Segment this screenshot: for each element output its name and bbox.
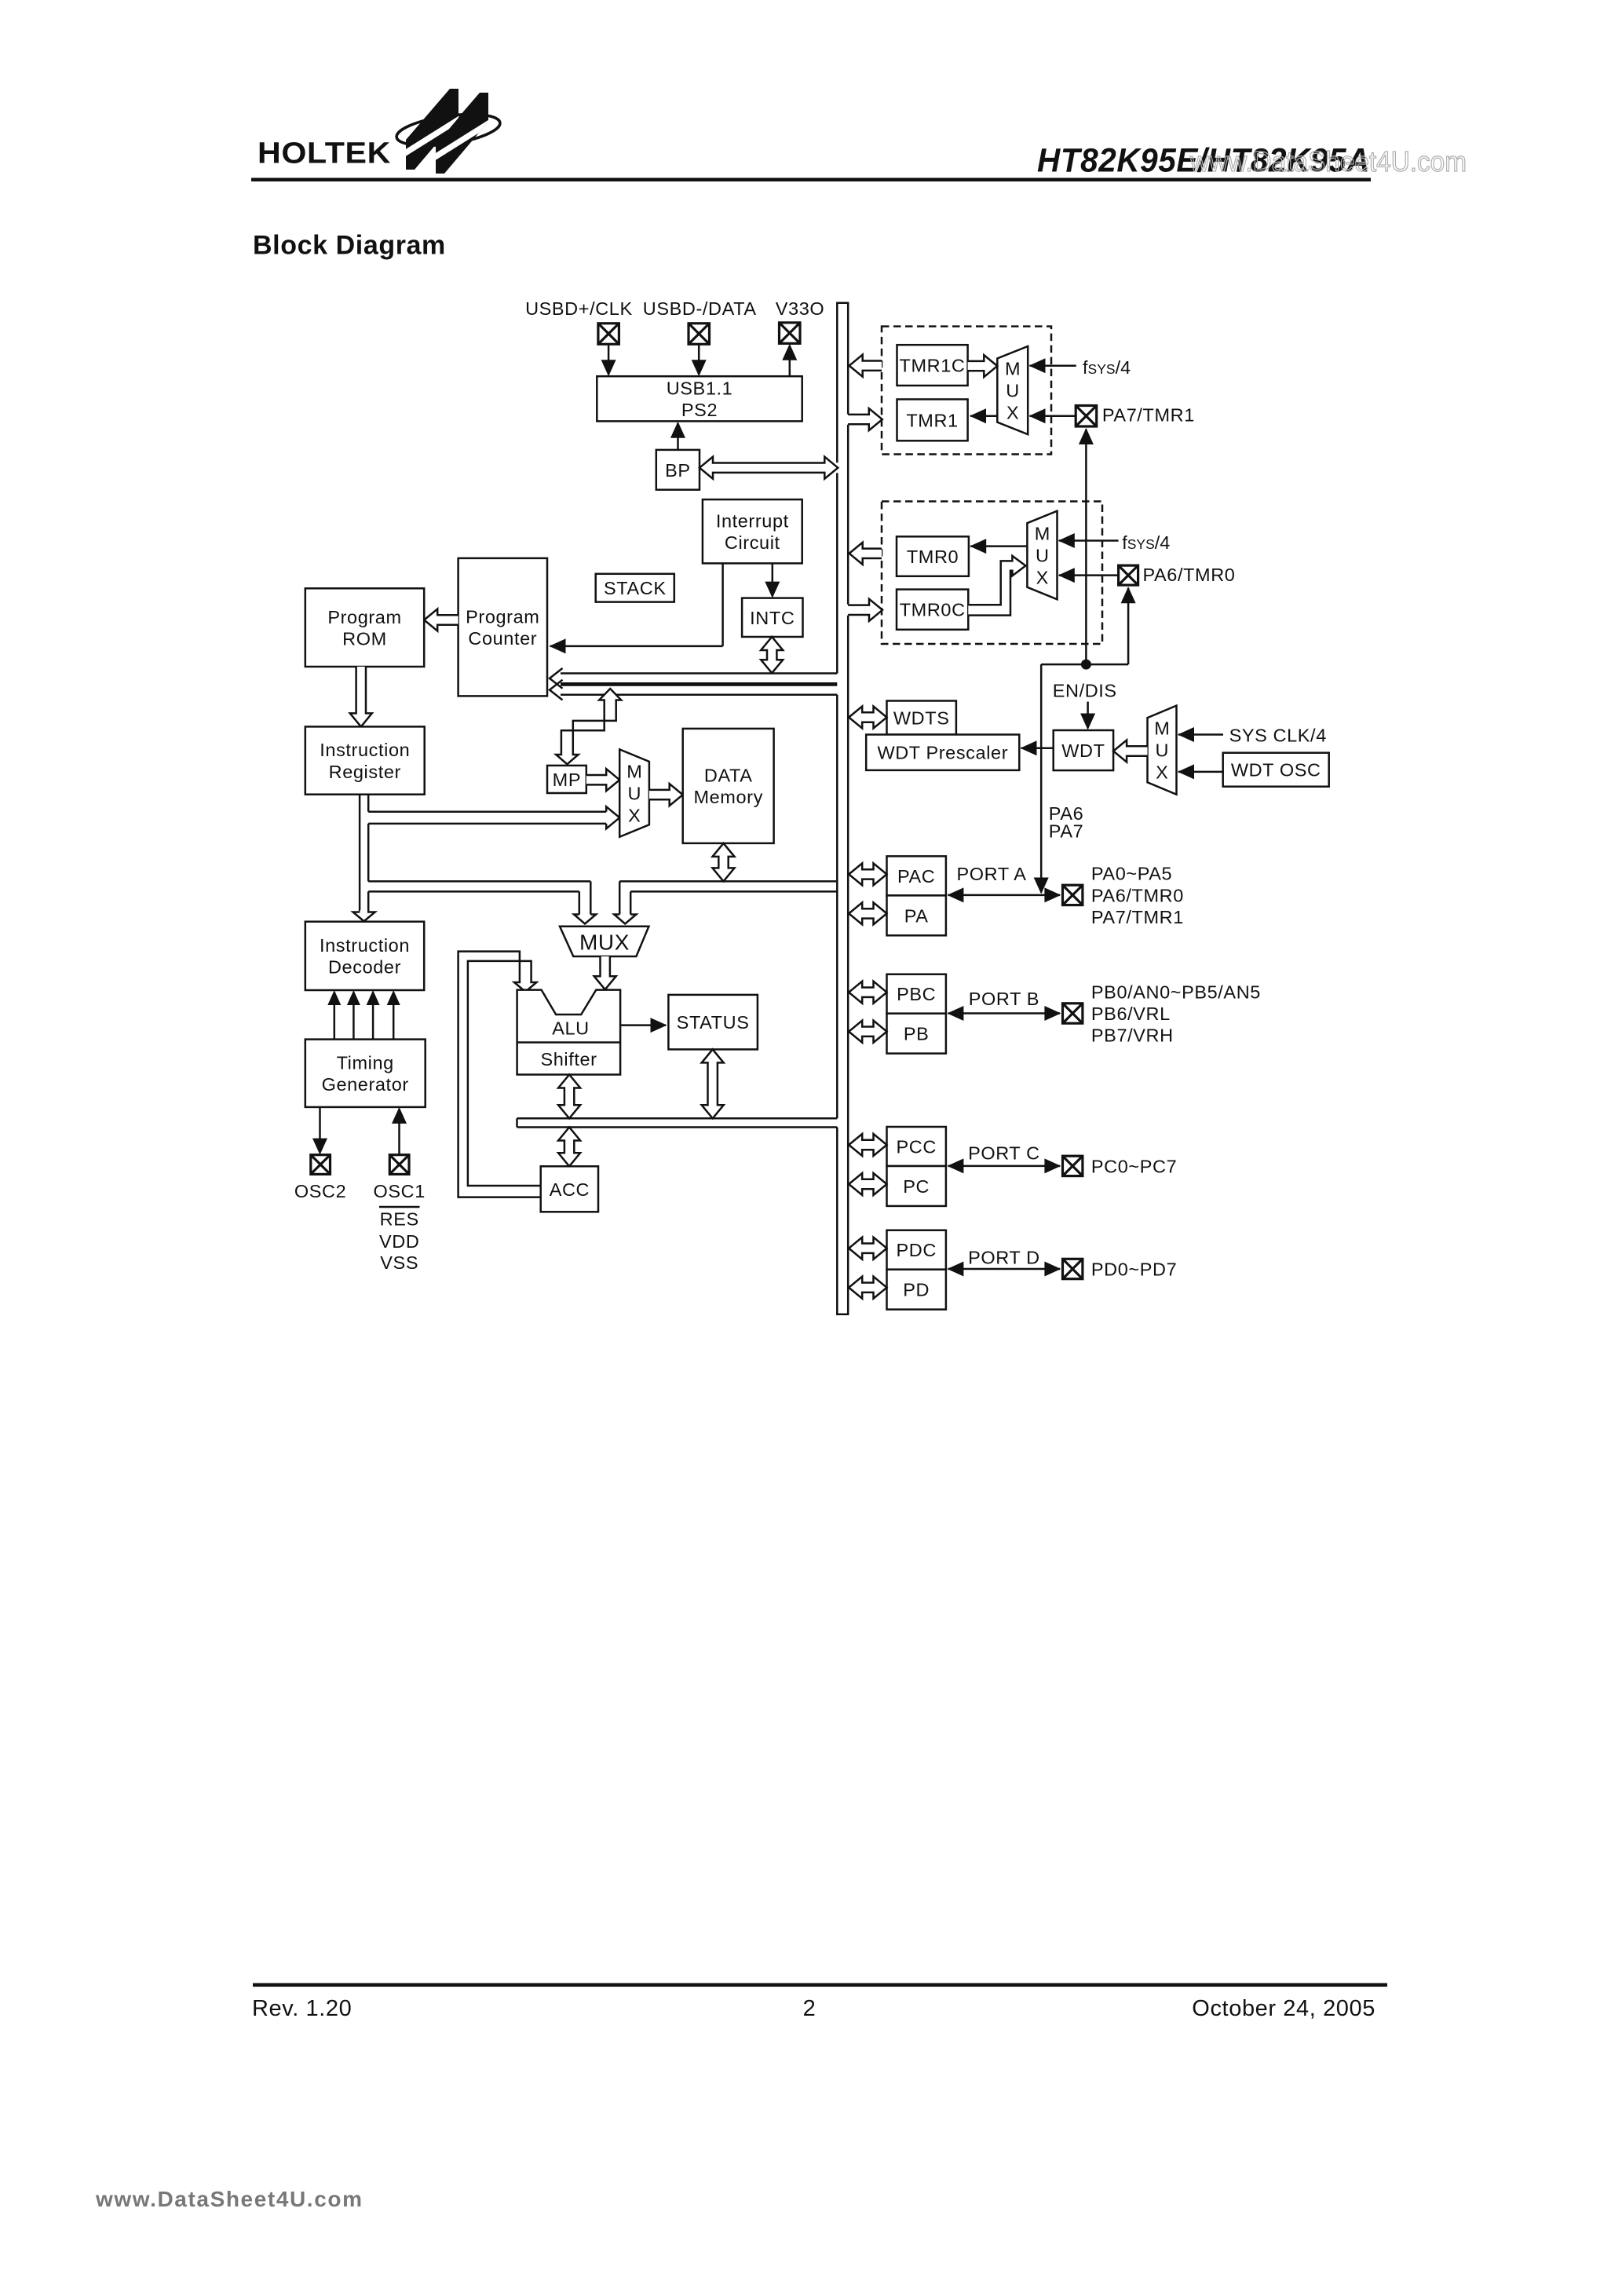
svg-text:WDTS: WDTS — [893, 708, 950, 729]
block STATUS — [668, 995, 758, 1050]
svg-text:U: U — [1036, 545, 1049, 565]
svg-text:PD: PD — [903, 1280, 930, 1300]
svg-text:SYS CLK/4: SYS CLK/4 — [1229, 726, 1327, 746]
mux MUX (data memory address mux) — [619, 749, 649, 836]
svg-text:Generator: Generator — [322, 1074, 409, 1095]
svg-text:VDD: VDD — [379, 1231, 419, 1252]
svg-text:HOLTEK: HOLTEK — [258, 137, 391, 170]
wire USBD+ to USB block — [601, 344, 616, 376]
block MP — [547, 766, 586, 793]
bus arrow WDTS to data bus (bidirectional) — [849, 707, 886, 729]
svg-text:RES: RES — [380, 1209, 419, 1230]
svg-text:www.DataSheet4U.com: www.DataSheet4U.com — [95, 2187, 363, 2211]
svg-text:STACK: STACK — [604, 578, 667, 598]
svg-text:Interrupt: Interrupt — [716, 510, 789, 531]
block Timing Generator — [305, 1040, 426, 1107]
pin OSC2 — [311, 1155, 331, 1175]
block USB1.1 PS2 — [597, 376, 802, 421]
wire BP to USB block — [670, 422, 685, 450]
wire Instruction Register output channel — [353, 795, 375, 921]
pin OSC2 label — [294, 1181, 346, 1201]
block WDTS — [887, 701, 956, 735]
block WDT — [1054, 730, 1113, 770]
svg-text:Program: Program — [327, 607, 401, 627]
svg-text:EN/DIS: EN/DIS — [1053, 680, 1117, 700]
bus arrow data bus to TMR0C — [848, 599, 882, 621]
pin VDD label — [379, 1231, 419, 1252]
bus channel PC-channel to MP — [556, 689, 621, 764]
svg-text:PDC: PDC — [896, 1240, 936, 1260]
svg-text:M: M — [627, 762, 642, 782]
wire PA7 line down to junction — [1079, 428, 1094, 664]
mux MUX (WDT clock mux) — [1148, 706, 1177, 795]
svg-text:M: M — [1154, 718, 1170, 739]
footer watermark www.DataSheet4U.com — [95, 2187, 363, 2211]
wire MUX to TMR0 — [970, 539, 1027, 554]
wire OSC1 to Timing Generator — [392, 1107, 407, 1155]
bus channel ACC feedback to ALU — [458, 952, 541, 1197]
svg-text:VSS: VSS — [380, 1252, 418, 1273]
bus arrow MUX to Data Memory — [649, 784, 683, 806]
header watermark www.DataSheet4U.com — [1189, 145, 1467, 177]
svg-text:PS2: PS2 — [681, 400, 718, 420]
block INTC — [742, 598, 802, 637]
dashed box Timer 1 module — [882, 327, 1051, 455]
mux MUX (timer0 clock mux) — [1027, 511, 1057, 600]
wire PA6 pin down to junction — [1121, 587, 1136, 664]
block PORT C (PCC/PC) with pin PC0~PC7 — [849, 1127, 1177, 1206]
block STACK — [596, 574, 674, 602]
svg-text:U: U — [1156, 740, 1169, 761]
wire MUX to TMR1 — [970, 408, 997, 423]
bus arrow Program ROM to Instruction Register — [350, 667, 372, 726]
svg-text:PB0/AN0~PB5/AN5: PB0/AN0~PB5/AN5 — [1091, 982, 1261, 1002]
svg-text:Decoder: Decoder — [328, 957, 401, 978]
wire SYS CLK/4 to WDT MUX — [1178, 727, 1223, 742]
svg-text:MP: MP — [553, 770, 581, 790]
block Program ROM — [305, 588, 424, 667]
bus channel data bus to ALU MUX (right segment) — [614, 881, 837, 923]
pin PA6/TMR0 — [1119, 565, 1138, 585]
svg-text:PA: PA — [904, 905, 929, 926]
mux MUX (ALU operand mux) — [560, 927, 648, 956]
HOLTEK logo text — [258, 137, 391, 170]
bus arrow STATUS to data path (bidirectional) — [702, 1049, 724, 1118]
svg-text:PA6/TMR0: PA6/TMR0 — [1143, 565, 1236, 585]
label fSYS/4 (timer1) — [1083, 357, 1131, 378]
svg-text:TMR1C: TMR1C — [900, 356, 966, 376]
wires Timing Generator to Instruction Decoder (4 arrows) — [327, 990, 400, 1040]
svg-text:PC: PC — [903, 1176, 930, 1197]
wire USB block to V33O — [782, 344, 797, 376]
bus channel data bus to Program Counter (lower) — [550, 680, 837, 700]
footer revision — [252, 1996, 352, 2021]
pin PA7/TMR1 — [1076, 406, 1097, 427]
svg-text:V33O: V33O — [776, 298, 825, 319]
footer rule — [253, 1983, 1387, 1987]
wire fSYS/4 to timer0 MUX — [1058, 533, 1119, 548]
pin USBD-/DATA label — [643, 298, 757, 319]
svg-text:ALU: ALU — [552, 1018, 590, 1039]
wire USBD- to USB block — [692, 344, 707, 376]
block TMR1C — [897, 345, 968, 386]
svg-text:X: X — [1006, 403, 1019, 423]
block ALU with Shifter — [517, 990, 621, 1075]
svg-text:USB1.1: USB1.1 — [667, 378, 733, 399]
svg-text:Memory: Memory — [693, 787, 762, 807]
svg-text:Instruction: Instruction — [320, 935, 410, 956]
svg-text:PB6/VRL: PB6/VRL — [1091, 1004, 1171, 1024]
bus arrow MP to MUX — [586, 769, 619, 791]
svg-text:STATUS: STATUS — [677, 1012, 750, 1033]
label PA7/TMR1 pin — [1102, 405, 1195, 426]
bus arrow MUX to WDT — [1113, 740, 1147, 762]
svg-text:USBD+/CLK: USBD+/CLK — [525, 298, 633, 319]
label PA6/TMR0 pin — [1143, 565, 1236, 585]
data bus (vertical double-line bus) — [836, 303, 849, 1314]
svg-text:Shifter: Shifter — [540, 1049, 597, 1069]
svg-text:ROM: ROM — [342, 628, 387, 649]
footer page number — [803, 1996, 816, 2021]
pin USBD+/CLK label — [525, 298, 633, 319]
bus arrow INTC to PC channel (bidirectional) — [761, 637, 783, 673]
svg-text:PA7: PA7 — [1049, 821, 1083, 841]
bus arrow TMR1C to MUX — [968, 355, 998, 377]
svg-text:WDT OSC: WDT OSC — [1231, 760, 1321, 781]
pin OSC1 — [389, 1155, 409, 1175]
svg-text:Rev. 1.20: Rev. 1.20 — [252, 1996, 352, 2021]
block TMR1 — [897, 400, 968, 441]
wire ALU to STATUS — [620, 1018, 667, 1033]
svg-text:2: 2 — [803, 1996, 816, 2021]
svg-text:X: X — [1156, 762, 1168, 783]
svg-text:PORT A: PORT A — [957, 864, 1027, 884]
block TMR0 — [897, 536, 969, 576]
wire WDT to WDT Prescaler — [1021, 740, 1054, 755]
pin USBD-/DATA — [689, 324, 710, 345]
block WDT OSC — [1223, 753, 1329, 787]
svg-text:Register: Register — [329, 762, 401, 782]
svg-text:OSC2: OSC2 — [294, 1181, 346, 1201]
bus channel ALU data path (horizontal) — [517, 1118, 838, 1127]
svg-text:PBC: PBC — [897, 984, 936, 1004]
bus arrow MUX to ALU — [594, 956, 616, 989]
svg-text:PORT D: PORT D — [968, 1248, 1040, 1268]
svg-text:Block Diagram: Block Diagram — [253, 231, 446, 261]
wire PA6 pin to timer0 MUX — [1058, 568, 1120, 583]
svg-text:U: U — [1006, 381, 1019, 401]
svg-text:Instruction: Instruction — [320, 740, 410, 760]
block PORT A (PAC/PA) with pin PA0~PA5 PA6/TMR0 PA7/TMR1 — [849, 856, 1184, 935]
svg-text:PB7/VRH: PB7/VRH — [1091, 1026, 1174, 1046]
wire WDT OSC to WDT MUX — [1178, 764, 1223, 779]
junction dot PA6/PA7 — [1081, 660, 1091, 670]
svg-text:TMR0: TMR0 — [907, 547, 959, 567]
wire fSYS/4 to timer1 MUX — [1029, 358, 1076, 373]
bus arrow Data Memory to bus channel (bidirectional) — [713, 843, 735, 882]
wire junction PA6/PA7 horizontal — [1041, 664, 1128, 666]
svg-text:PA7/TMR1: PA7/TMR1 — [1091, 907, 1184, 927]
bus arrow BP to data bus (bidirectional) — [700, 457, 838, 479]
pin VSS label — [380, 1252, 418, 1273]
svg-text:PD0~PD7: PD0~PD7 — [1091, 1260, 1177, 1280]
wire Interrupt Circuit to Program Counter — [550, 563, 723, 653]
bus arrow data bus to TMR1 — [848, 408, 882, 430]
wire PA7 pin to timer1 MUX — [1029, 408, 1076, 423]
bus channel Instruction Register to ALU MUX (left segment) — [368, 881, 596, 923]
bus arrow data path to ACC (bidirectional) — [558, 1128, 580, 1167]
block PORT D (PDC/PD) with pin PD0~PD7 — [849, 1230, 1177, 1310]
block WDT Prescaler — [866, 735, 1019, 770]
svg-text:U: U — [628, 784, 641, 804]
bus channel TMR0C to MUX — [968, 556, 1025, 616]
wire Interrupt Circuit to INTC — [765, 563, 780, 598]
block ACC — [541, 1166, 598, 1212]
block PORT B (PBC/PB) with pin PB0/AN0~PB5/AN5 PB6/VRL PB7/VRH — [849, 974, 1261, 1054]
wire junction down to Port A (PA6 PA7) — [1034, 664, 1049, 894]
svg-text:WDT Prescaler: WDT Prescaler — [877, 743, 1008, 763]
page title HT82K95E/HT82K95A — [1037, 142, 1370, 180]
pin V33O label — [776, 298, 825, 319]
mux MUX (timer1 clock mux) — [997, 346, 1028, 434]
label EN/DIS — [1053, 680, 1117, 700]
svg-text:USBD-/DATA: USBD-/DATA — [643, 298, 757, 319]
svg-text:PC0~PC7: PC0~PC7 — [1091, 1156, 1177, 1176]
bus arrow TMR0 to data bus — [849, 543, 882, 565]
svg-text:WDT: WDT — [1061, 740, 1105, 761]
svg-text:PORT B: PORT B — [969, 989, 1039, 1009]
block TMR0C — [897, 590, 968, 630]
svg-text:Timing: Timing — [337, 1052, 394, 1073]
svg-text:M: M — [1005, 359, 1021, 379]
bus arrow Program Counter to ROM — [424, 609, 458, 631]
svg-text:ACC: ACC — [550, 1179, 590, 1200]
svg-text:www.DataSheet4U.com: www.DataSheet4U.com — [1189, 145, 1467, 177]
header rule — [251, 178, 1371, 182]
label PA6 PA7 (node names) — [1049, 803, 1083, 841]
svg-text:Counter: Counter — [468, 628, 537, 649]
svg-text:M: M — [1035, 523, 1050, 543]
bus arrow Shifter to data path (bidirectional) — [558, 1075, 580, 1119]
svg-text:MUX: MUX — [579, 930, 630, 955]
svg-text:PB: PB — [904, 1024, 930, 1044]
pin RES label (active low) — [379, 1207, 420, 1230]
bus channel data bus to Program Counter (upper) — [550, 668, 837, 689]
svg-text:DATA: DATA — [704, 766, 753, 786]
svg-text:PA6/TMR0: PA6/TMR0 — [1091, 885, 1184, 905]
footer date — [1192, 1996, 1375, 2021]
svg-text:PA0~PA5: PA0~PA5 — [1091, 864, 1172, 884]
svg-text:Circuit: Circuit — [725, 532, 780, 553]
bus arrow TMR1C to data bus — [849, 355, 882, 377]
dashed box Timer 0 module — [882, 502, 1102, 645]
bus channel Instruction Register to MUX (data memory mux) — [368, 806, 619, 828]
wire EN/DIS to WDT — [1080, 702, 1095, 730]
pin OSC1 label — [373, 1181, 425, 1201]
Holtek logo icon (ellipse + double lightning bolts) — [395, 89, 502, 174]
block BP — [656, 450, 700, 490]
svg-text:Program: Program — [466, 606, 539, 627]
svg-text:PA7/TMR1: PA7/TMR1 — [1102, 405, 1195, 426]
svg-text:X: X — [1036, 567, 1049, 587]
pin USBD+/CLK — [598, 324, 619, 345]
wire Timing Generator to OSC2 — [312, 1107, 327, 1155]
svg-text:PAC: PAC — [897, 866, 935, 887]
label fSYS/4 (timer0) — [1122, 532, 1170, 553]
svg-text:PCC: PCC — [896, 1137, 936, 1157]
svg-text:BP: BP — [665, 460, 691, 481]
label SYS CLK/4 — [1229, 726, 1327, 746]
svg-text:TMR1: TMR1 — [906, 410, 958, 430]
pin V33O — [780, 323, 801, 344]
block Program Counter — [458, 558, 547, 696]
svg-text:TMR0C: TMR0C — [900, 600, 966, 620]
section heading Block Diagram — [253, 231, 446, 261]
svg-text:X: X — [628, 806, 641, 826]
svg-text:October 24, 2005: October 24, 2005 — [1192, 1996, 1375, 2021]
block Instruction Register — [305, 726, 425, 794]
block Instruction Decoder — [305, 922, 424, 990]
svg-text:INTC: INTC — [750, 608, 795, 628]
svg-text:PORT C: PORT C — [968, 1143, 1040, 1163]
block Interrupt Circuit — [703, 499, 802, 563]
block DATA Memory — [683, 729, 774, 843]
svg-text:OSC1: OSC1 — [373, 1181, 425, 1201]
